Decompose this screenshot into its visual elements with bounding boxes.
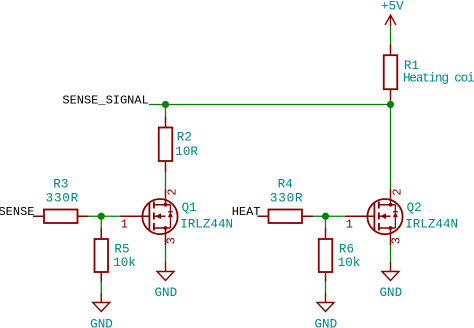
wire: junction D down to R6 bbox=[325, 216, 327, 228]
wire: Q1 source to ground bbox=[165, 245, 167, 262]
junction D bbox=[322, 213, 329, 220]
wire: junction A to junction B horizontal bbox=[166, 104, 391, 106]
Q1 body circle bbox=[142, 199, 177, 234]
junction A bbox=[162, 101, 169, 108]
ground under R6 bbox=[314, 293, 337, 328]
Q1 channel dash bottom bbox=[153, 223, 155, 231]
R2 body bbox=[159, 128, 173, 162]
Q1 substrate arrow bbox=[155, 213, 161, 219]
svg-text:330R: 330R bbox=[46, 192, 79, 206]
svg-text:R3: R3 bbox=[53, 178, 68, 192]
ground under Q1 bbox=[154, 262, 177, 300]
resistor R2 bbox=[159, 117, 199, 173]
Q2 gate pin bbox=[346, 215, 375, 217]
resistor R3 bbox=[33, 178, 89, 223]
ground pin line bbox=[390, 262, 392, 272]
svg-text:GND: GND bbox=[379, 286, 402, 300]
junction B bbox=[387, 101, 394, 108]
wire: R2 to Q1 drain bbox=[165, 172, 167, 189]
wire: junction C down to R5 bbox=[100, 216, 102, 228]
ground triangle bbox=[382, 272, 399, 281]
svg-text:SENSE: SENSE bbox=[0, 205, 35, 219]
wire: R4 to junction D bbox=[313, 215, 326, 217]
svg-text:R2: R2 bbox=[177, 130, 192, 144]
R6 body bbox=[319, 239, 333, 272]
R6 top pin bbox=[325, 228, 327, 239]
svg-text:IRLZ44N: IRLZ44N bbox=[180, 217, 233, 231]
Q2 channel dash bottom bbox=[378, 223, 380, 231]
+5V pin line bbox=[390, 15, 392, 26]
svg-text:10k: 10k bbox=[338, 256, 361, 270]
ground under R5 bbox=[90, 293, 113, 328]
R1 bottom pin bbox=[390, 89, 392, 100]
ground triangle bbox=[93, 303, 110, 312]
resistor R1 bbox=[384, 44, 474, 100]
wire: SENSE label to junction C bbox=[89, 215, 102, 217]
Q2 substrate arrow bbox=[380, 213, 386, 219]
Q2 body diode cathode bar bbox=[393, 211, 398, 213]
Q2 source node dot bbox=[389, 226, 393, 230]
svg-text:R4: R4 bbox=[278, 178, 293, 192]
Q1 substrate line bbox=[154, 215, 166, 217]
R3 body bbox=[44, 210, 78, 224]
R2 top pin bbox=[165, 117, 167, 128]
Q2 source horizontal bbox=[379, 227, 396, 229]
Q2 body circle bbox=[367, 199, 402, 234]
resistor R4 bbox=[258, 178, 314, 223]
wire: Q2 source to ground bbox=[390, 245, 392, 262]
Q1 channel dash top bbox=[153, 202, 155, 209]
Q1 gate pin bbox=[121, 215, 150, 217]
Q2 body diode anode lead bbox=[394, 205, 396, 212]
svg-text:R5: R5 bbox=[114, 243, 129, 257]
svg-text:Heating coil: Heating coil bbox=[403, 72, 474, 86]
resistor R5 bbox=[95, 228, 136, 282]
wire: junction C to Q1 gate bbox=[101, 215, 120, 217]
Q2 body diode cathode lead bbox=[394, 217, 396, 228]
Q1 body diode triangle bbox=[168, 212, 173, 218]
ground pin line bbox=[165, 262, 167, 272]
wire: +5V to R1 bbox=[390, 26, 392, 44]
Q2 source pin bbox=[390, 228, 392, 245]
svg-text:2: 2 bbox=[166, 188, 180, 195]
Q1 source node dot bbox=[164, 226, 168, 230]
svg-text:1: 1 bbox=[121, 218, 128, 232]
junction C bbox=[98, 213, 105, 220]
svg-text:Q1: Q1 bbox=[182, 201, 197, 215]
svg-text:+5V: +5V bbox=[381, 0, 404, 13]
resistor R6 bbox=[319, 228, 361, 282]
transistor Q2 bbox=[346, 188, 459, 245]
Q2 channel dash middle bbox=[378, 213, 380, 220]
svg-text:10R: 10R bbox=[175, 145, 198, 159]
wire: junction B down to Q2 drain bbox=[390, 105, 392, 189]
svg-text:2: 2 bbox=[391, 188, 405, 195]
svg-text:3: 3 bbox=[390, 237, 404, 244]
svg-text:1: 1 bbox=[346, 218, 353, 232]
Q1 drain horizontal bbox=[154, 204, 171, 206]
svg-text:330R: 330R bbox=[270, 192, 303, 206]
Q2 body diode triangle bbox=[393, 212, 398, 218]
Q2 drain horizontal bbox=[379, 204, 396, 206]
wire: SENSE_SIGNAL label to junction A bbox=[149, 104, 166, 106]
svg-text:10k: 10k bbox=[113, 256, 136, 270]
R4 body bbox=[269, 210, 303, 224]
Q1 source pin bbox=[165, 228, 167, 245]
R2 bottom pin bbox=[165, 161, 167, 172]
Q2 drain pin bbox=[390, 189, 392, 205]
svg-text:3: 3 bbox=[165, 237, 179, 244]
svg-text:HEAT: HEAT bbox=[232, 205, 261, 219]
R5 body bbox=[95, 239, 109, 272]
svg-text:GND: GND bbox=[314, 318, 337, 328]
R5 bottom pin bbox=[100, 272, 102, 282]
R3 left pin bbox=[33, 215, 44, 217]
Q2 drain node dot bbox=[389, 203, 393, 207]
svg-text:SENSE_SIGNAL: SENSE_SIGNAL bbox=[62, 94, 148, 108]
R5 top pin bbox=[100, 228, 102, 239]
Q1 gate bar bbox=[148, 202, 150, 230]
wire: R1 to junction B bbox=[390, 100, 392, 104]
ground pin line bbox=[100, 293, 102, 303]
svg-text:IRLZ44N: IRLZ44N bbox=[405, 217, 458, 231]
ground triangle bbox=[157, 272, 174, 281]
wire: R5 to ground bbox=[100, 282, 102, 294]
svg-text:GND: GND bbox=[154, 286, 177, 300]
svg-text:R6: R6 bbox=[339, 243, 354, 257]
Q2 substrate line bbox=[379, 215, 391, 217]
svg-text:Q2: Q2 bbox=[407, 201, 422, 215]
R3 right pin bbox=[78, 215, 89, 217]
ground under Q2 bbox=[379, 262, 402, 300]
Q1 channel dash middle bbox=[153, 213, 155, 220]
R4 right pin bbox=[302, 215, 313, 217]
Q1 body diode anode lead bbox=[169, 205, 171, 212]
R1 top pin bbox=[390, 44, 392, 55]
Q1 body diode cathode lead bbox=[169, 217, 171, 228]
ground pin line bbox=[325, 293, 327, 303]
Q1 body diode cathode bar bbox=[168, 211, 173, 213]
Q1 source horizontal bbox=[154, 227, 171, 229]
Q2 gate bar bbox=[373, 202, 375, 230]
wire: R6 to ground bbox=[325, 282, 327, 294]
wire: junction A down to R2 bbox=[165, 105, 167, 117]
transistor Q1 bbox=[121, 188, 234, 245]
ground triangle bbox=[317, 303, 334, 312]
R1 body bbox=[384, 55, 398, 89]
svg-text:GND: GND bbox=[90, 318, 113, 328]
wire: junction D to Q2 gate bbox=[326, 215, 346, 217]
Q1 drain pin bbox=[165, 189, 167, 205]
+5V arrow bbox=[385, 15, 396, 25]
R6 bottom pin bbox=[325, 272, 327, 282]
power +5V bbox=[381, 0, 404, 26]
Q1 drain node dot bbox=[164, 203, 168, 207]
R4 left pin bbox=[258, 215, 269, 217]
Q2 channel dash top bbox=[378, 202, 380, 209]
